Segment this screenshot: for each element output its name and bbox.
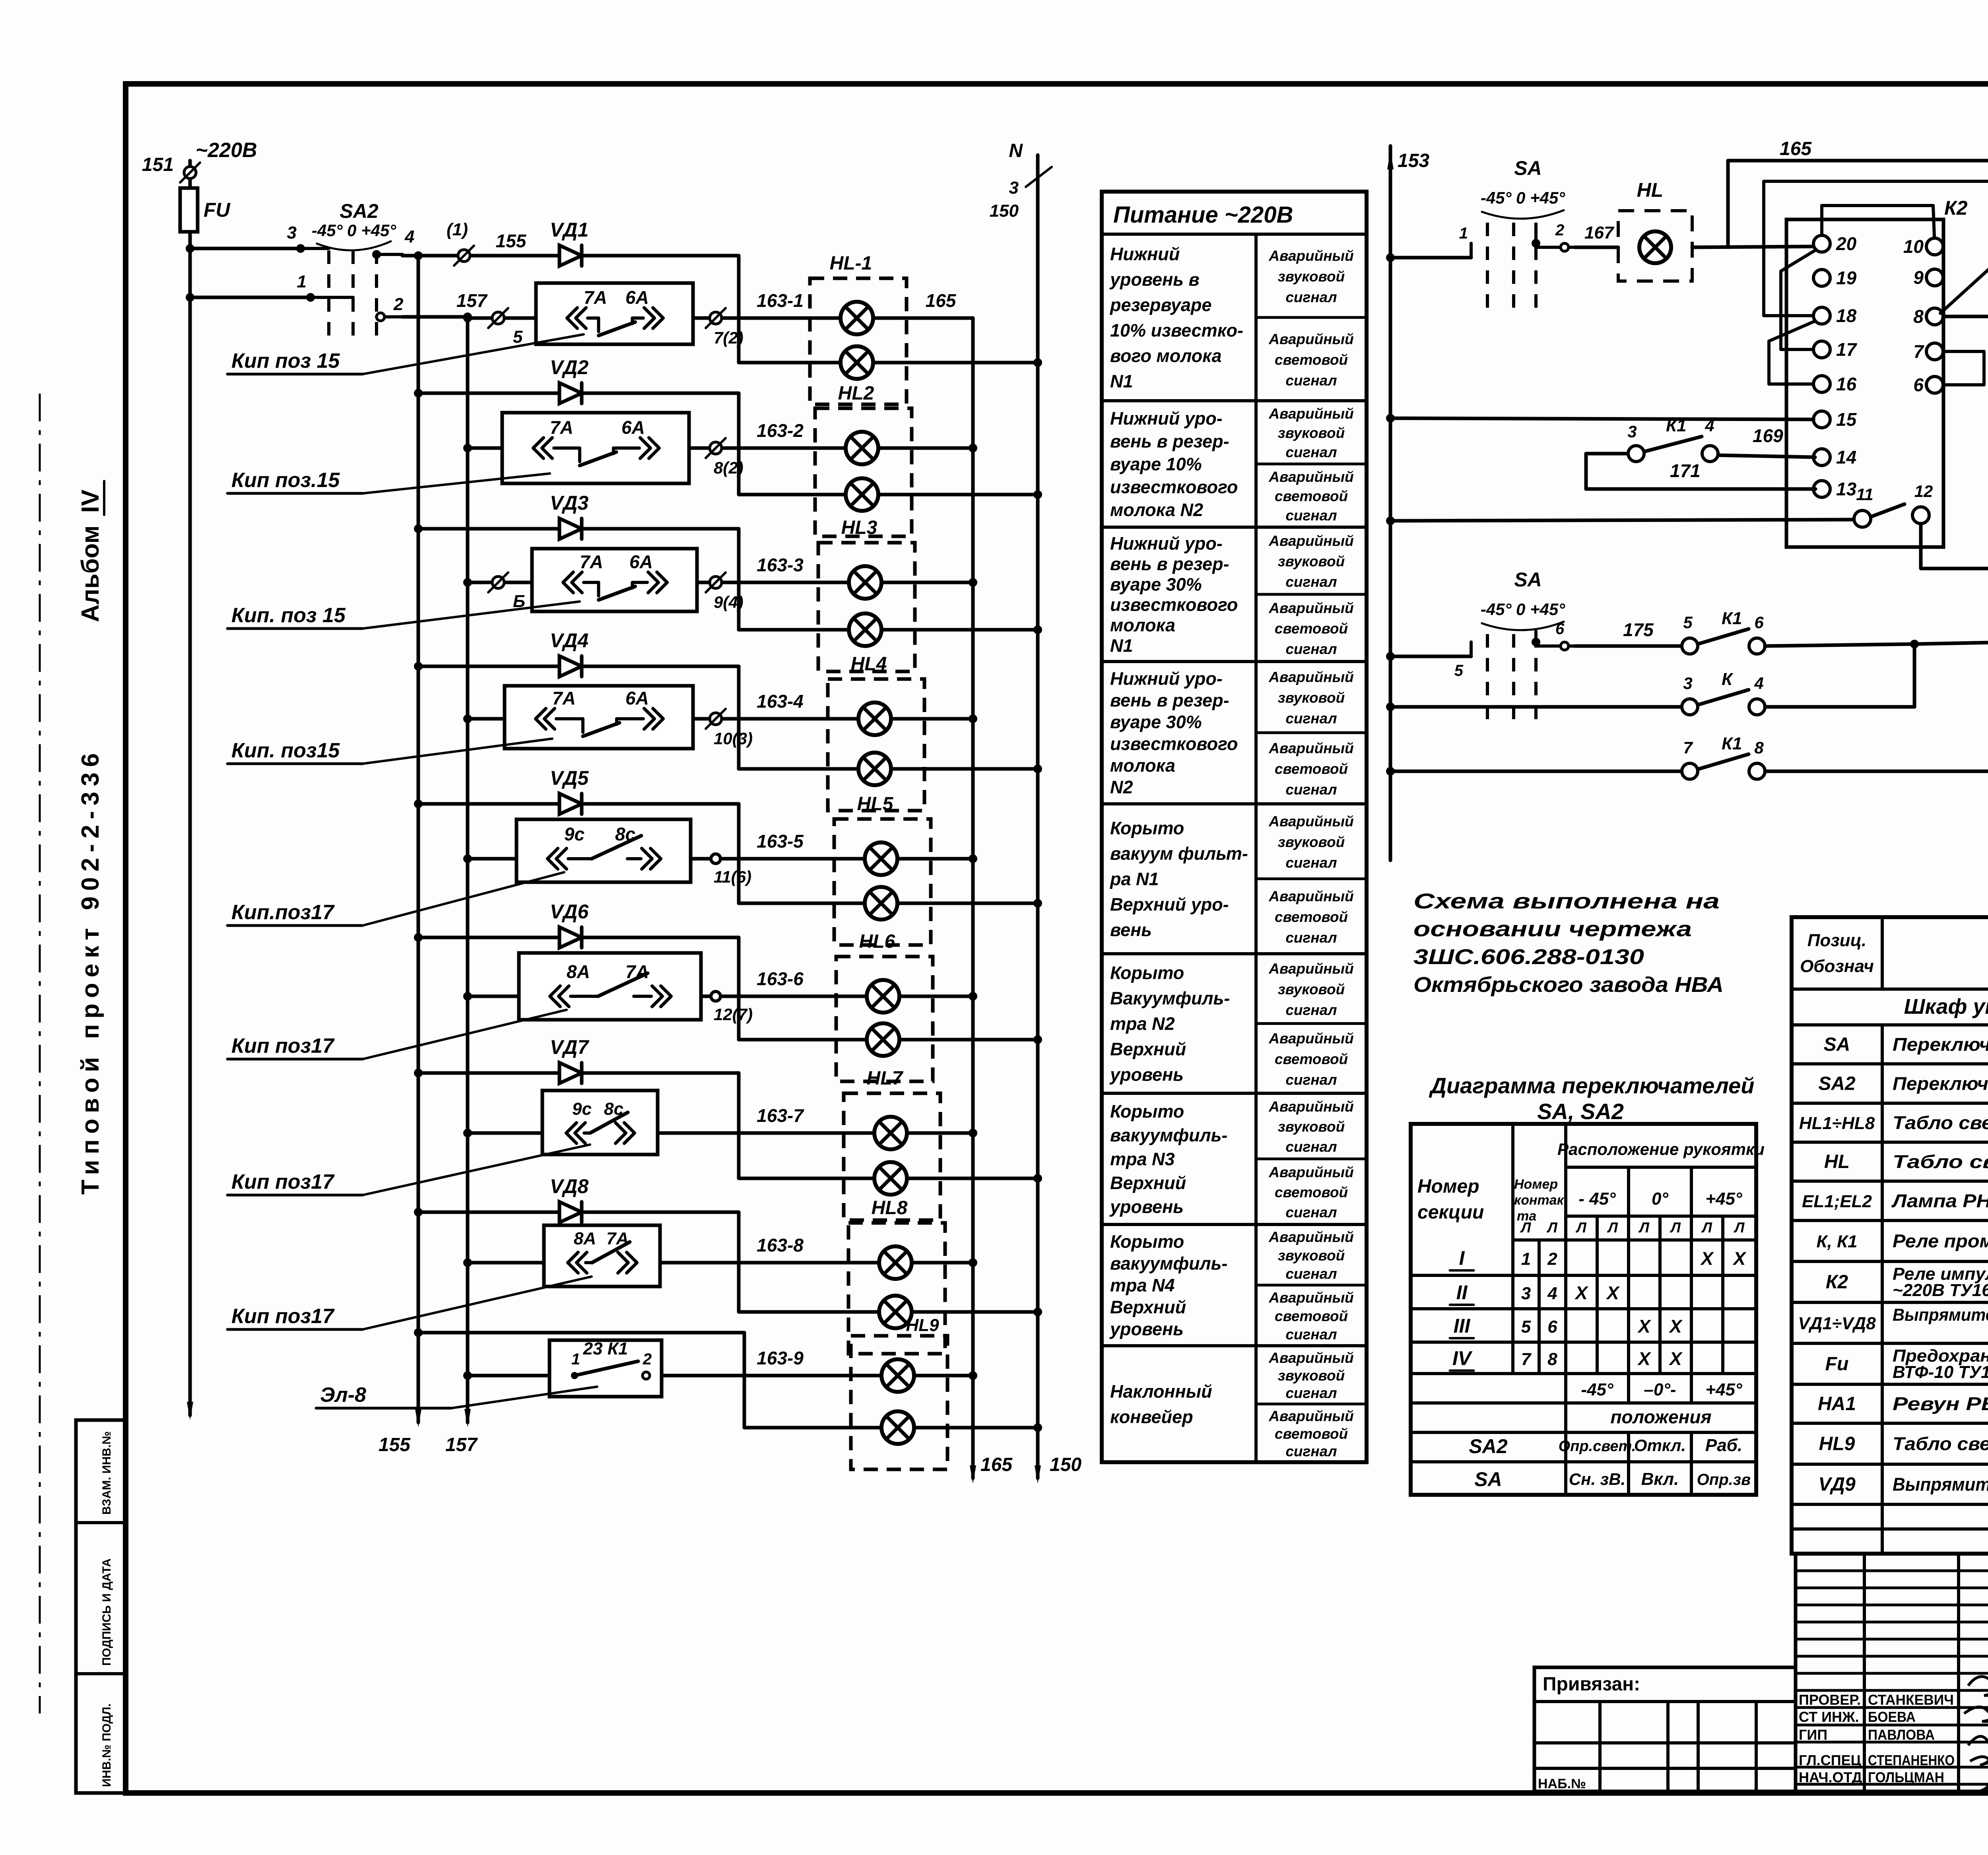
lamp HL6 lower [867, 1023, 899, 1056]
svg-text:К, К1: К, К1 [1816, 1232, 1857, 1252]
svg-text:Вакуумфиль-: Вакуумфиль- [1110, 988, 1230, 1009]
svg-text:20: 20 [1836, 233, 1857, 254]
svg-text:7А: 7А [584, 287, 607, 308]
svg-text:VД5: VД5 [550, 767, 589, 789]
lamp HL4 lower [858, 753, 891, 785]
svg-text:сигнал: сигнал [1285, 1002, 1337, 1018]
label Кип row 9 [316, 1383, 597, 1408]
svg-text:HL1÷HL8: HL1÷HL8 [1799, 1114, 1875, 1133]
wire junction vertical row 2 [737, 393, 741, 495]
junction bus 165 row 4 [969, 714, 977, 723]
svg-text:SA: SA [1824, 1034, 1850, 1055]
svg-text:7А: 7А [552, 688, 576, 708]
svg-text:163-5: 163-5 [757, 831, 804, 852]
svg-text:X: X [1668, 1316, 1683, 1337]
svg-text:сигнал: сигнал [1285, 1139, 1337, 1155]
svg-text:К1: К1 [1722, 734, 1742, 753]
svg-text:9(4): 9(4) [714, 593, 744, 611]
diode VД4 [414, 629, 739, 677]
svg-text:-45° 0 +45°: -45° 0 +45° [1481, 600, 1565, 619]
wire 153 to pin 11 of К2 [1386, 516, 1854, 525]
bus 153 vertical [1387, 146, 1429, 860]
parts row HL1÷HL8 [1799, 1112, 1988, 1133]
svg-text:ГОЛЬЦМАН: ГОЛЬЦМАН [1868, 1769, 1944, 1785]
svg-text:HL2: HL2 [838, 383, 874, 404]
svg-text:-45° 0 +45°: -45° 0 +45° [312, 221, 396, 240]
svg-text:Верхний: Верхний [1110, 1297, 1186, 1318]
diode VД8 [414, 1175, 739, 1222]
svg-text:3: 3 [1521, 1284, 1531, 1303]
wire 163-5 [739, 831, 973, 859]
wire junction vertical row 6 [737, 937, 741, 1040]
svg-text:Откл.: Откл. [1634, 1436, 1686, 1455]
svg-text:12: 12 [1914, 482, 1933, 501]
table Питание row 9 left cell [1110, 1382, 1212, 1427]
svg-text:157: 157 [456, 290, 488, 311]
label Кип row 3 [227, 602, 580, 629]
wire Эл-8 feed from bus 155 [414, 1328, 744, 1376]
svg-text:HL4: HL4 [851, 654, 887, 675]
wire 163-9 [744, 1348, 973, 1376]
relay К2 left pins 20..13 [1813, 233, 1858, 499]
svg-text:7А: 7А [550, 417, 573, 438]
svg-text:резервуаре: резервуаре [1110, 295, 1211, 315]
wire lower lamp row 9 [744, 1423, 1042, 1432]
svg-text:+45°: +45° [1705, 1189, 1742, 1209]
svg-text:сигнал: сигнал [1285, 574, 1337, 590]
relay К2 impulse relay box [1786, 219, 1943, 547]
svg-text:сигнал: сигнал [1285, 444, 1337, 460]
wire 163-1 [739, 290, 973, 318]
svg-text:Fu: Fu [1825, 1354, 1849, 1375]
svg-text:ВТФ-10 ТУ16-521-037-70: ВТФ-10 ТУ16-521-037-70 [1893, 1362, 1988, 1382]
svg-text:сигнал: сигнал [1285, 1443, 1337, 1459]
wire SA2 contact 4 to bus 155 [402, 254, 418, 258]
svg-text:HL6: HL6 [859, 931, 895, 952]
svg-text:Типовой проект 902-2-336: Типовой проект 902-2-336 [77, 748, 104, 1195]
svg-text:ВЗАМ. ИНВ.№: ВЗАМ. ИНВ.№ [100, 1431, 113, 1515]
svg-text:4: 4 [404, 227, 414, 246]
svg-text:вуаре 10%: вуаре 10% [1110, 454, 1202, 474]
diode VД1 [414, 219, 739, 266]
svg-text:8А: 8А [567, 961, 590, 982]
svg-text:6А: 6А [625, 287, 649, 308]
svg-text:167: 167 [1584, 223, 1615, 243]
svg-text:8: 8 [1547, 1350, 1557, 1369]
svg-text:155: 155 [379, 1434, 411, 1455]
svg-text:световой: световой [1275, 1051, 1348, 1067]
bottom-left stamp strip [76, 1420, 126, 1793]
node 7(2) row 1 [706, 308, 744, 347]
svg-text:основании чертежа: основании чертежа [1413, 917, 1692, 941]
svg-text:Раб.: Раб. [1705, 1436, 1742, 1455]
table Питание row 1 right cells [1256, 248, 1367, 389]
svg-text:23 К1: 23 К1 [583, 1339, 628, 1358]
svg-text:звуковой: звуковой [1278, 425, 1345, 441]
svg-text:16: 16 [1836, 374, 1857, 394]
svg-text:8с: 8с [604, 1099, 623, 1119]
svg-text:7: 7 [1521, 1350, 1532, 1369]
wire 163-8 [739, 1235, 973, 1263]
svg-text:Корыто: Корыто [1110, 818, 1184, 838]
parts row HL [1824, 1151, 1988, 1172]
lamp HL8 lower [879, 1296, 912, 1328]
svg-text:сигнал: сигнал [1285, 1071, 1337, 1088]
svg-text:VД9: VД9 [1818, 1474, 1856, 1495]
svg-text:155: 155 [496, 231, 527, 251]
svg-text:сигнал: сигнал [1285, 507, 1337, 524]
svg-text:5: 5 [1454, 662, 1464, 679]
node 5 row 1 [488, 308, 523, 347]
svg-text:3: 3 [1009, 178, 1019, 198]
table Питание row 7 left cell [1109, 1101, 1227, 1217]
svg-text:7: 7 [1683, 738, 1693, 757]
svg-text:Позиц.: Позиц. [1807, 931, 1867, 950]
wire main bus from fuse [187, 232, 193, 1420]
svg-text:19: 19 [1836, 268, 1857, 288]
label Кип row 7 [227, 1145, 590, 1195]
svg-text:3ШС.606.288-0130: 3ШС.606.288-0130 [1413, 945, 1644, 969]
svg-text:Аварийный: Аварийный [1268, 331, 1354, 347]
svg-text:вуаре 30%: вуаре 30% [1110, 574, 1202, 594]
svg-text:6: 6 [1754, 613, 1764, 632]
wire 163-3 [739, 555, 973, 582]
wire 167 to lamp HL [1561, 243, 1618, 251]
svg-text:световой: световой [1275, 488, 1348, 504]
svg-text:положения: положения [1610, 1407, 1711, 1427]
contact К1 5-6 wire 175 177 [1574, 609, 1988, 654]
label Кип row 8 [227, 1277, 592, 1329]
wire pin 8 to bus 150 [1943, 312, 1988, 321]
svg-text:165: 165 [926, 290, 957, 311]
contact symbol row 2 [533, 417, 659, 466]
indicator group HL3 dashed box [818, 517, 915, 671]
svg-text:Л: Л [1701, 1219, 1712, 1236]
svg-text:Аварийный: Аварийный [1268, 600, 1354, 616]
svg-text:–0°-: –0°- [1644, 1380, 1676, 1399]
svg-text:Реле промежуточное РП-25-220вТ: Реле промежуточное РП-25-220вТУ16-523-48… [1893, 1231, 1988, 1252]
svg-text:169: 169 [1753, 425, 1783, 446]
svg-text:175: 175 [1623, 619, 1654, 640]
label Кип row 1 [227, 334, 584, 374]
svg-text:известкового: известкового [1110, 477, 1238, 497]
svg-text:сигнал: сигнал [1285, 289, 1337, 305]
svg-text:Номер: Номер [1417, 1176, 1479, 1197]
indicator group HL1 dashed box [810, 253, 907, 404]
svg-text:Аварийный: Аварийный [1268, 960, 1354, 977]
svg-text:тра N4: тра N4 [1110, 1275, 1175, 1296]
svg-text:1: 1 [1459, 225, 1468, 242]
svg-text:X: X [1574, 1283, 1588, 1303]
svg-text:9: 9 [1913, 267, 1924, 288]
svg-text:N2: N2 [1110, 777, 1133, 797]
svg-text:К1: К1 [1722, 609, 1742, 628]
svg-text:163-6: 163-6 [757, 968, 804, 989]
indicator group HL5 dashed box [834, 794, 931, 945]
diode VД5 [414, 767, 739, 814]
svg-text:5: 5 [1683, 613, 1693, 632]
svg-text:Нижний уро-: Нижний уро- [1110, 668, 1223, 689]
svg-text:~220В: ~220В [196, 139, 257, 162]
svg-text:N: N [1009, 140, 1023, 161]
svg-text:9с: 9с [572, 1099, 592, 1119]
svg-text:163-1: 163-1 [757, 290, 804, 311]
svg-text:сигнал: сигнал [1285, 1265, 1337, 1282]
indicator group HL6 dashed box [836, 931, 933, 1081]
svg-text:Октябрьского завода НВА: Октябрьского завода НВА [1413, 973, 1724, 997]
contact К 3-4 branch [1386, 644, 1914, 715]
node 151 supply entry [142, 139, 257, 188]
svg-text:Переключатель УП5312-С45 ТУ16-: Переключатель УП5312-С45 ТУ16-524.074-70 [1893, 1073, 1988, 1094]
diode VД2 [414, 356, 739, 404]
svg-text:вень в резер-: вень в резер- [1110, 431, 1229, 451]
svg-text:(1): (1) [447, 220, 468, 239]
table Диаграмма headers [1417, 1140, 1765, 1236]
svg-text:6: 6 [1913, 374, 1924, 395]
svg-text:7А: 7А [625, 961, 649, 982]
lamp HL3 upper [849, 566, 881, 599]
svg-text:7А: 7А [580, 551, 603, 572]
contact symbol row 9 [571, 1339, 652, 1379]
table Питание row 1 left cell [1109, 244, 1243, 392]
svg-text:X: X [1732, 1248, 1747, 1269]
svg-text:Л: Л [1734, 1219, 1745, 1236]
svg-text:Табло световое ТСМ ТУ16: Табло световое ТСМ ТУ16-524.074-70 [1893, 1151, 1988, 1172]
wire fuse bus to SA2 top [186, 244, 301, 253]
wire lower lamp row 8 [739, 1308, 1042, 1316]
junction bus 165 row 6 [969, 992, 977, 1001]
parts row SA [1824, 1034, 1988, 1055]
wire 163-4 [739, 691, 973, 719]
lamp HL1 lower [841, 346, 873, 379]
svg-text:Переключатель УП5312-А45, ТУ16: Переключатель УП5312-А45, ТУ16- 524.074-… [1893, 1034, 1988, 1055]
svg-text:К1: К1 [1666, 416, 1687, 435]
contact К1 3-4 with wire 169 to pin 14 [1586, 416, 1815, 489]
svg-text:12(7): 12(7) [714, 1005, 753, 1024]
svg-text:150: 150 [990, 201, 1019, 221]
svg-text:Кип поз 15: Кип поз 15 [231, 349, 340, 373]
wire junction vertical row 3 [737, 529, 741, 630]
junction bus 165 row 8 [969, 1258, 977, 1267]
svg-text:3: 3 [287, 223, 297, 243]
svg-text:Л: Л [1607, 1219, 1618, 1236]
svg-text:SA: SA [1514, 569, 1541, 591]
wire fuse bus to SA2 bottom [186, 293, 311, 302]
wire junction vertical row 8 [737, 1212, 741, 1312]
svg-text:8А: 8А [574, 1229, 596, 1248]
svg-text:HL8: HL8 [872, 1197, 908, 1219]
svg-text:вень: вень [1110, 920, 1152, 940]
title block signature names [1799, 1676, 1988, 1791]
svg-text:Аварийный: Аварийный [1268, 1030, 1354, 1046]
parts row SA2 [1818, 1073, 1988, 1094]
svg-text:Корыто: Корыто [1110, 1101, 1184, 1122]
table Питание ~220В frame [1102, 192, 1367, 1462]
svg-text:163-9: 163-9 [757, 1348, 804, 1368]
svg-text:2: 2 [393, 295, 404, 314]
svg-text:Схема выполнена на: Схема выполнена на [1413, 889, 1720, 913]
svg-text:световой: световой [1275, 621, 1348, 637]
svg-text:Аварийный: Аварийный [1268, 1350, 1354, 1366]
indicator group HL4 dashed box [828, 654, 924, 811]
svg-text:Опр.свет.: Опр.свет. [1559, 1438, 1636, 1455]
svg-text:Аварийный: Аварийный [1268, 533, 1354, 549]
contact box КИП row 5 [463, 819, 739, 882]
svg-text:163-4: 163-4 [757, 691, 804, 712]
svg-text:3: 3 [1627, 422, 1637, 441]
svg-text:Расположение рукоятки: Расположение рукоятки [1557, 1140, 1765, 1158]
svg-text:FU: FU [204, 199, 231, 221]
svg-text:Л: Л [1670, 1219, 1681, 1236]
svg-text:10(3): 10(3) [714, 729, 753, 748]
lamp HL2 upper [846, 432, 878, 464]
lamp HL7 lower [874, 1162, 907, 1195]
indicator group HL9 dashed box [851, 1316, 947, 1469]
svg-text:HL7: HL7 [867, 1068, 904, 1089]
svg-text:Кип поз17: Кип поз17 [231, 1034, 335, 1058]
svg-text:6: 6 [1555, 620, 1565, 638]
relay К2 pins 11 12 bottom contact [1854, 482, 1933, 527]
svg-text:4: 4 [1705, 416, 1714, 435]
svg-text:IV: IV [1452, 1347, 1473, 1370]
svg-text:SA: SA [1474, 1468, 1502, 1490]
parts row HL9 [1819, 1426, 1988, 1466]
table Диаграмма rows I-IV [1450, 1247, 1747, 1271]
table Питание row 8 right cells [1256, 1229, 1367, 1343]
svg-text:уровень в: уровень в [1109, 270, 1200, 290]
svg-text:8с: 8с [615, 824, 635, 844]
svg-text:Аварийный: Аварийный [1268, 1408, 1354, 1424]
svg-text:тра N2: тра N2 [1110, 1014, 1175, 1034]
table Питание row 6 right cells [1256, 960, 1367, 1088]
parts row Fu [1825, 1346, 1988, 1382]
svg-text:Нижний: Нижний [1110, 244, 1180, 264]
svg-text:Питание ~220В: Питание ~220В [1113, 202, 1293, 228]
lamp HL3 lower [849, 613, 881, 646]
parts table frame [1792, 917, 1988, 1554]
junction bus 165 row 7 [969, 1129, 977, 1137]
svg-text:Наклонный: Наклонный [1110, 1382, 1212, 1402]
wire 171 to pin 13 [1586, 460, 1815, 489]
svg-text:СТ ИНЖ.: СТ ИНЖ. [1799, 1709, 1859, 1725]
svg-text:15: 15 [1836, 409, 1857, 430]
svg-text:Аварийный: Аварийный [1268, 813, 1354, 829]
svg-text:HL9: HL9 [906, 1316, 939, 1335]
svg-text:13: 13 [1836, 479, 1857, 499]
table Питание row 2 left cell [1110, 408, 1238, 520]
svg-text:Опр.зв: Опр.зв [1697, 1471, 1751, 1488]
note Схема выполнена [1413, 889, 1724, 997]
svg-text:вакуумфиль-: вакуумфиль- [1110, 1125, 1227, 1145]
bus 155 vertical [379, 256, 421, 1455]
svg-text:HL5: HL5 [857, 794, 894, 815]
svg-text:НАБ.№: НАБ.№ [1538, 1776, 1586, 1791]
svg-text:HL9: HL9 [1819, 1434, 1855, 1455]
relay К2 coil loop and label [1822, 197, 1968, 246]
parts row НА1 [1818, 1393, 1988, 1415]
contact box КИП row 1 [463, 283, 739, 344]
wire junction vertical row 5 [737, 804, 741, 903]
parts table group row Шкаф управления [1904, 995, 1988, 1019]
svg-text:N1: N1 [1110, 371, 1133, 392]
label Кип row 2 [227, 469, 550, 493]
svg-text:Выпрямитель полупроводниковый: Выпрямитель полупроводниковый Д226Б [1893, 1474, 1988, 1495]
svg-text:Верхний: Верхний [1110, 1173, 1186, 1193]
svg-text:Верхний уро-: Верхний уро- [1110, 895, 1229, 915]
lamp HL7 upper [874, 1117, 907, 1149]
svg-text:ра N1: ра N1 [1110, 869, 1159, 889]
node 8(2) row 2 [706, 438, 744, 477]
svg-text:молока: молока [1110, 755, 1175, 776]
svg-text:8: 8 [1913, 306, 1924, 327]
svg-text:вакуум фильт-: вакуум фильт- [1110, 844, 1248, 864]
svg-text:молока N2: молока N2 [1110, 500, 1203, 520]
svg-text:Альбом: Альбом [77, 526, 104, 623]
parts table headers [1800, 931, 1988, 976]
svg-text:звуковой: звуковой [1278, 1247, 1345, 1263]
contact box КИП row 2 [463, 413, 739, 483]
svg-text:сигнал: сигнал [1285, 372, 1337, 388]
svg-text:14: 14 [1836, 447, 1856, 468]
svg-text:157: 157 [445, 1434, 478, 1455]
svg-text:Аварийный: Аварийный [1268, 1290, 1354, 1306]
svg-text:4: 4 [1754, 674, 1763, 693]
svg-text:вого молока: вого молока [1110, 346, 1221, 366]
wire junction vertical row 1 [737, 256, 741, 363]
svg-text:ПРОВЕР.: ПРОВЕР. [1799, 1692, 1861, 1708]
svg-text:VД3: VД3 [550, 492, 588, 514]
wire lower lamp row 3 [739, 625, 1042, 634]
svg-text:БОЕВА: БОЕВА [1868, 1709, 1916, 1725]
svg-text:VД6: VД6 [550, 900, 589, 923]
svg-text:163-7: 163-7 [757, 1105, 804, 1126]
svg-text:HL3: HL3 [841, 517, 878, 538]
svg-text:Аварийный: Аварийный [1268, 1098, 1354, 1115]
svg-text:X: X [1668, 1349, 1683, 1369]
svg-text:Кип поз.15: Кип поз.15 [231, 469, 340, 492]
svg-text:Аварийный: Аварийный [1268, 740, 1354, 757]
lamp HL6 upper [867, 980, 899, 1013]
svg-text:VД2: VД2 [550, 356, 588, 378]
contact symbol row 7 [566, 1099, 635, 1143]
contact box КИП row 3 [463, 549, 739, 611]
lamp HL2 lower [846, 478, 878, 511]
bus 157 vertical [445, 317, 478, 1455]
svg-text:звуковой: звуковой [1278, 834, 1345, 850]
contact box КИП row 8 [463, 1225, 739, 1286]
wire lower lamp row 7 [739, 1174, 1042, 1183]
svg-text:Аварийный: Аварийный [1268, 469, 1354, 485]
contact box КИП row 6 [463, 953, 739, 1020]
svg-text:Ревун РВ II - 220: Ревун РВ II - 220 [1893, 1393, 1988, 1414]
svg-text:сигнал: сигнал [1285, 710, 1337, 727]
svg-text:световой: световой [1275, 761, 1348, 777]
svg-text:Аварийный: Аварийный [1268, 888, 1354, 904]
svg-text:сигнал: сигнал [1285, 641, 1337, 657]
title block left box Привязан [1534, 1667, 1796, 1791]
parts row EL1;EL2 [1802, 1191, 1988, 1211]
contact symbol row 6 [550, 961, 671, 1007]
svg-text:VД1÷VД8: VД1÷VД8 [1798, 1314, 1876, 1333]
svg-text:Л: Л [1575, 1219, 1587, 1236]
svg-text:К2: К2 [1944, 197, 1968, 219]
diode VД6 [414, 900, 739, 948]
wire lower lamp row 2 [739, 490, 1042, 499]
indicator group HL8 dashed box [848, 1197, 945, 1354]
wire 163-2 [739, 420, 973, 448]
table Питание row 7 right cells [1256, 1098, 1367, 1220]
svg-text:Аварийный: Аварийный [1268, 669, 1354, 685]
